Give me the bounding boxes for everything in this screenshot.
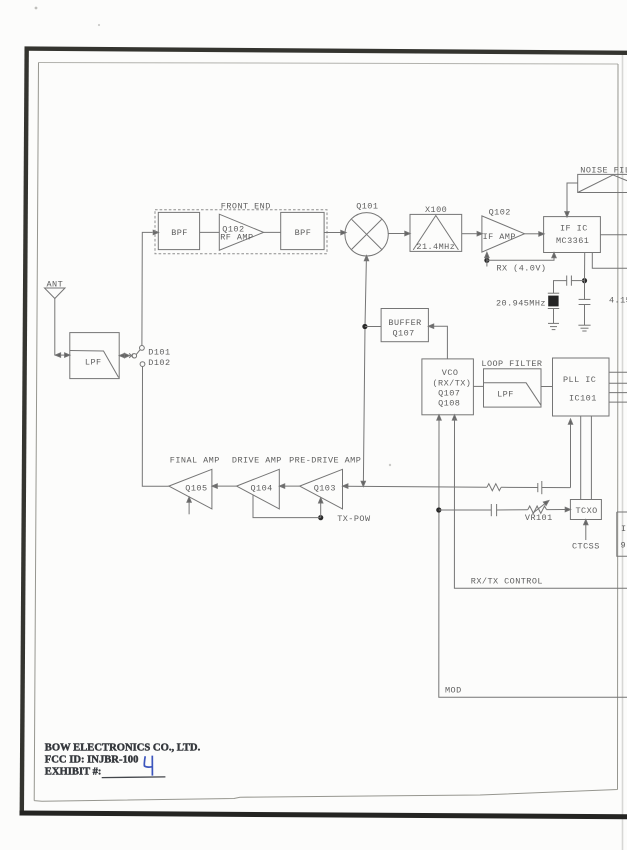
wire RX node to IF IC bottom <box>487 257 554 260</box>
svg-text:VR101: VR101 <box>525 513 553 523</box>
antenna symbol <box>45 288 66 299</box>
ground crystal <box>548 322 559 324</box>
wire PLL to TCXO pins <box>580 416 582 500</box>
scan speck 1 <box>35 7 38 10</box>
RF amp Q102 triangle <box>219 214 263 250</box>
wire VCO control 2 (RX/TX bus) <box>452 415 456 420</box>
wire LPF to switch double arrow <box>119 355 128 357</box>
buffer junction node <box>362 324 367 329</box>
svg-text:9: 9 <box>621 541 627 551</box>
wire X100 to IF amp <box>462 233 477 235</box>
svg-text:IC101: IC101 <box>569 394 597 404</box>
VCO box <box>422 359 474 415</box>
wire IF IC bottom right out <box>592 253 627 269</box>
svg-text:X100: X100 <box>425 205 447 215</box>
crystal X 20.945MHz <box>548 292 559 294</box>
wire mixer to X100 <box>388 233 405 235</box>
svg-text:RX (4.0V): RX (4.0V) <box>497 263 547 273</box>
wire RX node to IF amp <box>486 256 488 267</box>
wire switch down to final amp <box>142 367 169 487</box>
wire APC up to PLL <box>570 420 572 488</box>
switch cross mark <box>129 353 133 358</box>
noise filter box <box>578 174 627 192</box>
TCXO box <box>570 500 601 520</box>
final amp Q105 <box>169 469 212 509</box>
scan speck 2 <box>98 24 100 26</box>
outer thick border top <box>25 49 627 53</box>
switch lever <box>136 350 140 355</box>
svg-text:BPF: BPF <box>171 228 188 238</box>
capacitor TCXO line <box>490 504 492 516</box>
drive amp Q104 <box>237 469 280 509</box>
wire Q104 bias to node <box>253 495 321 518</box>
wire Q104 to Q105 <box>212 484 217 488</box>
svg-text:FCC ID: INJBR-100: FCC ID: INJBR-100 <box>45 755 139 766</box>
variable resistor VR101 <box>528 506 547 513</box>
svg-text:TX-POW: TX-POW <box>337 514 371 524</box>
wire mixer LO input from buffer node <box>364 256 368 261</box>
svg-text:BPF: BPF <box>295 228 312 238</box>
IF amp Q102 triangle <box>482 216 525 252</box>
wire node to capacitor <box>439 509 492 511</box>
ground shunt cap <box>578 324 590 326</box>
svg-text:MC3361: MC3361 <box>556 236 589 246</box>
wire IF IC bottom to node <box>584 253 586 281</box>
loop filter box <box>484 369 542 407</box>
diode contact D102 <box>140 362 145 367</box>
wire BPF2 to mixer <box>324 232 340 234</box>
svg-text:RF AMP: RF AMP <box>220 232 253 242</box>
svg-text:FINAL AMP: FINAL AMP <box>170 456 220 466</box>
capacitor shunt <box>584 281 586 300</box>
svg-text:BOW ELECTRONICS CO., LTD.: BOW ELECTRONICS CO., LTD. <box>45 742 201 753</box>
wires PLL right outputs <box>609 371 627 373</box>
svg-text:LPF: LPF <box>85 358 102 368</box>
exhibit underline <box>102 776 166 779</box>
wire BPF1 to RF amp <box>200 231 220 233</box>
switch pole circle <box>132 354 136 358</box>
wire VR101 to TCXO <box>547 509 566 511</box>
wire switch up to RX input <box>142 232 153 345</box>
RX supply node <box>484 258 489 263</box>
wire RF amp to BPF2 <box>264 231 281 233</box>
svg-text:I: I <box>621 524 627 534</box>
PLL IC IC101 box <box>553 358 610 416</box>
svg-text:BUFFER: BUFFER <box>388 318 421 328</box>
svg-text:NOISE FILT: NOISE FILT <box>580 165 627 175</box>
wire antenna down <box>54 299 56 356</box>
partial box right edge <box>617 512 627 556</box>
svg-text:LOOP FILTER: LOOP FILTER <box>481 359 542 369</box>
svg-text:TCXO: TCXO <box>576 506 598 516</box>
svg-text:CTCSS: CTCSS <box>572 542 600 552</box>
svg-text:Q103: Q103 <box>314 483 336 493</box>
LPF symbol <box>70 351 119 378</box>
capacitor series to crystal <box>571 280 584 282</box>
bias arrow Q105 <box>188 501 190 514</box>
svg-text:(RX/TX): (RX/TX) <box>433 378 472 388</box>
mixer Q101 <box>345 213 388 256</box>
capacitor on APC line <box>537 483 539 492</box>
svg-text:D101: D101 <box>148 348 170 358</box>
svg-text:Q102: Q102 <box>489 208 511 218</box>
svg-text:PRE-DRIVE AMP: PRE-DRIVE AMP <box>289 456 361 466</box>
handwritten 4 <box>144 756 152 776</box>
outer thick border left <box>22 47 27 814</box>
scan speck 3 <box>389 464 391 466</box>
svg-text:Q104: Q104 <box>251 483 273 493</box>
svg-text:Q105: Q105 <box>185 483 207 493</box>
svg-text:RX/TX CONTROL: RX/TX CONTROL <box>471 577 543 587</box>
svg-text:Q107: Q107 <box>393 329 415 339</box>
svg-text:FRONT END: FRONT END <box>221 201 271 211</box>
svg-text:VCO: VCO <box>442 368 459 378</box>
crystal junction node <box>582 278 587 283</box>
paper right edge <box>622 52 624 850</box>
CTCSS input <box>585 524 587 541</box>
svg-text:IF AMP: IF AMP <box>483 232 516 242</box>
svg-text:LPF: LPF <box>497 390 514 400</box>
BPF box 2 <box>281 212 324 249</box>
wire loop filter to PLL <box>541 386 553 388</box>
svg-text:DRIVE AMP: DRIVE AMP <box>232 456 282 466</box>
wire ant to LPF double arrow <box>55 354 70 356</box>
svg-text:EXHIBIT #:: EXHIBIT #: <box>45 767 102 778</box>
IF IC U MC3361 <box>544 217 601 253</box>
wire TX line from node to Q103 <box>343 484 348 488</box>
wire Q103 to Q104 <box>279 484 284 488</box>
X100 filter box <box>410 214 462 251</box>
wire VCO to buffer <box>428 324 433 328</box>
diode contact D101 <box>140 346 145 351</box>
wire node to buffer <box>365 326 381 328</box>
svg-text:4.153: 4.153 <box>609 296 627 306</box>
svg-text:Q101: Q101 <box>356 202 378 212</box>
wire IF IC right out <box>600 234 627 236</box>
TX-POW node <box>318 515 323 520</box>
resistor on APC line <box>487 484 501 491</box>
inner frame <box>39 63 619 65</box>
pre-drive amp Q103 <box>300 469 343 509</box>
svg-text:Q108: Q108 <box>438 399 460 409</box>
wire IF amp to IF IC <box>525 233 539 235</box>
svg-text:21.4MHz: 21.4MHz <box>416 242 455 252</box>
outer thick border bottom <box>20 813 627 817</box>
TCXO branch node <box>436 507 441 512</box>
front end dashed box <box>155 210 327 254</box>
wire node to Q103 bias <box>320 502 322 518</box>
svg-text:D102: D102 <box>148 358 170 368</box>
wire noise filter to IF IC top <box>567 183 578 212</box>
svg-text:Q107: Q107 <box>438 388 460 398</box>
svg-text:MOD: MOD <box>445 686 462 696</box>
wire VCO control 1 (MOD bus) <box>437 415 441 420</box>
svg-text:IF IC: IF IC <box>560 223 588 233</box>
buffer Q107 box <box>381 309 428 342</box>
LPF box <box>70 333 119 379</box>
svg-text:20.945MHz: 20.945MHz <box>496 299 546 309</box>
BPF box 1 <box>158 212 199 249</box>
svg-text:PLL IC: PLL IC <box>563 375 596 385</box>
wire VCO to loop filter <box>473 385 483 387</box>
